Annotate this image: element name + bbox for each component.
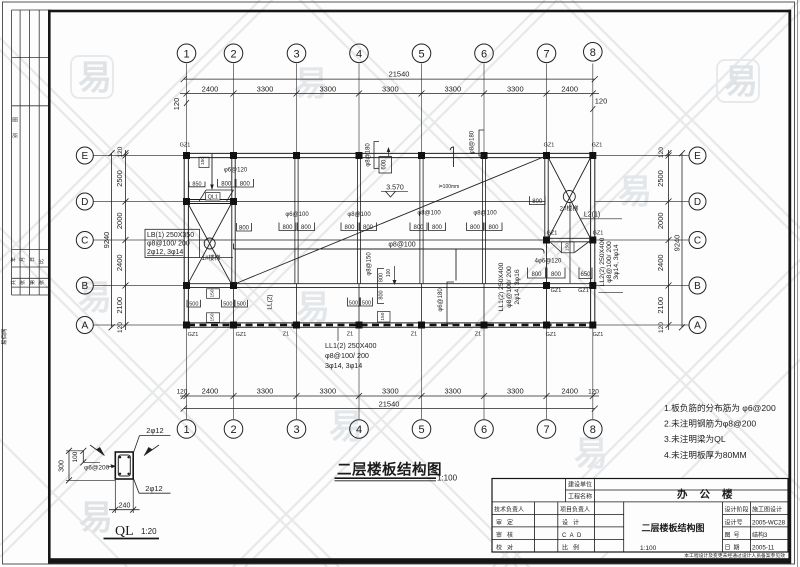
svg-text:3300: 3300 xyxy=(257,387,274,396)
binding strip tiny rotated labels xyxy=(10,117,45,285)
svg-text:QL1: QL1 xyxy=(208,195,218,201)
svg-text:φ8@150: φ8@150 xyxy=(367,252,373,276)
svg-text:2100: 2100 xyxy=(656,297,665,314)
800 bracket left of axis 7 xyxy=(530,196,546,204)
svg-text:GZ1: GZ1 xyxy=(180,143,191,149)
svg-text:第: 第 xyxy=(29,280,36,285)
svg-text:张: 张 xyxy=(38,280,45,285)
beam axis 5 double line xyxy=(420,153,423,323)
svg-text:设计: 设计 xyxy=(562,518,584,526)
axis C line xyxy=(188,239,544,241)
svg-text:φ8@100/ 200: φ8@100/ 200 xyxy=(147,241,190,248)
QL section outer rect xyxy=(115,452,133,479)
svg-text:5: 5 xyxy=(418,48,424,60)
svg-text:3300: 3300 xyxy=(444,85,461,94)
svg-text:图: 图 xyxy=(13,117,19,122)
svg-text:2000: 2000 xyxy=(656,212,665,229)
svg-text:2#楼梯: 2#楼梯 xyxy=(560,205,579,213)
svg-text:GZ1: GZ1 xyxy=(592,143,603,149)
beam axis 8 (right) double line xyxy=(591,153,595,327)
svg-text:7: 7 xyxy=(543,48,549,60)
svg-text:φ8@100: φ8@100 xyxy=(473,211,497,217)
top axis extension lines xyxy=(187,64,593,154)
svg-text:7: 7 xyxy=(543,424,549,436)
svg-text:日: 日 xyxy=(30,257,36,262)
top segment dim texts xyxy=(202,85,578,94)
svg-text:φ8@180: φ8@180 xyxy=(366,143,372,167)
svg-text:500: 500 xyxy=(223,302,232,308)
svg-text:800: 800 xyxy=(531,272,542,278)
beam axis C 7-8 (stair2) double xyxy=(545,238,595,242)
svg-text:8: 8 xyxy=(590,47,596,59)
svg-text:φ8@100/ 200: φ8@100/ 200 xyxy=(506,266,513,308)
left segment dim line xyxy=(123,150,129,330)
500 bracket left xyxy=(187,300,201,307)
150 box below near axis4 xyxy=(378,312,391,323)
svg-text:2400: 2400 xyxy=(202,85,219,94)
LL2(2) rotated text block right of axis 8 xyxy=(599,237,620,286)
column labels C row stair2 xyxy=(547,231,604,237)
svg-text:120: 120 xyxy=(177,389,188,396)
svg-text:LL2(2) 250X400: LL2(2) 250X400 xyxy=(599,237,606,286)
svg-text:1:100: 1:100 xyxy=(437,474,458,483)
beam axis E (top) double line xyxy=(184,153,595,157)
svg-text:B: B xyxy=(694,281,701,292)
svg-text:2500: 2500 xyxy=(115,170,124,187)
svg-text:C: C xyxy=(694,236,701,247)
svg-text:9240: 9240 xyxy=(102,232,111,249)
svg-text:易佰网: 易佰网 xyxy=(0,328,8,345)
svg-text:2φ12: 2φ12 xyxy=(145,484,162,493)
svg-text:二层楼板结构图: 二层楼板结构图 xyxy=(337,461,442,479)
right overall dim line 9240 xyxy=(679,150,685,330)
beam axis 7 double line E-C xyxy=(545,153,548,323)
svg-text:GZ1: GZ1 xyxy=(593,332,604,338)
columns C row (stair2) xyxy=(543,237,596,244)
svg-text:800: 800 xyxy=(488,225,499,231)
svg-text:易: 易 xyxy=(724,63,758,101)
right segment dim line xyxy=(666,150,672,330)
svg-text:2: 2 xyxy=(230,48,236,60)
svg-text:3300: 3300 xyxy=(507,85,524,94)
beam axis 6 double line xyxy=(482,153,485,323)
svg-text:LL1(2) 250X400: LL1(2) 250X400 xyxy=(325,341,377,350)
svg-text:120: 120 xyxy=(117,322,124,333)
svg-text:120: 120 xyxy=(595,97,608,106)
svg-text:1:100: 1:100 xyxy=(640,545,657,552)
outer right thin line xyxy=(797,0,799,567)
svg-text:工程名称: 工程名称 xyxy=(568,493,592,501)
svg-text:3300: 3300 xyxy=(507,387,524,396)
svg-text:21540: 21540 xyxy=(389,70,410,79)
svg-text:易: 易 xyxy=(574,435,608,473)
svg-text:2005-11: 2005-11 xyxy=(752,544,775,551)
long diagonal leader line 2B to 7E xyxy=(234,156,547,285)
svg-text:6: 6 xyxy=(481,48,487,60)
svg-text:4φ6@120: 4φ6@120 xyxy=(535,259,562,265)
top bubbles 1-8 xyxy=(177,43,602,63)
svg-text:比: 比 xyxy=(38,259,45,264)
svg-text:D: D xyxy=(81,197,88,208)
svg-text:150: 150 xyxy=(380,312,386,320)
svg-text:1: 1 xyxy=(183,48,189,60)
svg-text:4: 4 xyxy=(356,48,362,60)
svg-text:800: 800 xyxy=(551,272,562,278)
stair2 X cross xyxy=(549,158,591,238)
svg-text:本工程设计及变更未经通过设计人员备案参见效: 本工程设计及变更未经通过设计人员备案参见效 xyxy=(684,552,785,559)
vertical bar phi8@180 below B axis5 xyxy=(447,282,454,324)
svg-text:GZ1: GZ1 xyxy=(593,231,604,237)
svg-text:3.未注明梁为QL: 3.未注明梁为QL xyxy=(664,433,726,444)
svg-text:800: 800 xyxy=(413,225,424,231)
svg-text:500: 500 xyxy=(189,302,198,308)
table verticals xyxy=(535,479,751,553)
svg-text:φ8@100: φ8@100 xyxy=(388,242,415,249)
svg-text:图号: 图号 xyxy=(725,532,743,539)
svg-text:设计号: 设计号 xyxy=(725,518,743,526)
top overall dim line 21540 xyxy=(181,76,598,82)
150 hook symbol top xyxy=(199,157,209,167)
watermark glyphs xyxy=(78,59,758,541)
svg-text:150: 150 xyxy=(210,289,216,297)
svg-text:850: 850 xyxy=(192,181,201,187)
columns D row xyxy=(183,198,237,205)
column labels B row xyxy=(551,288,589,294)
svg-text:120: 120 xyxy=(658,147,665,158)
svg-text:Z1: Z1 xyxy=(347,331,353,337)
svg-text:3.570: 3.570 xyxy=(386,185,404,192)
svg-text:Z1: Z1 xyxy=(283,331,289,337)
svg-text:φ6@100: φ6@100 xyxy=(285,212,309,218)
right bubbles A-E xyxy=(689,147,706,334)
svg-text:150: 150 xyxy=(565,243,571,251)
svg-text:2.未注明钢筋为φ8@200: 2.未注明钢筋为φ8@200 xyxy=(664,418,756,429)
svg-text:E: E xyxy=(81,151,88,162)
svg-text:φ6@200: φ6@200 xyxy=(84,465,110,472)
columns A row xyxy=(183,322,596,329)
svg-text:4.未注明板厚为80MM: 4.未注明板厚为80MM xyxy=(664,449,747,460)
columns E row xyxy=(183,152,596,159)
svg-text:21540: 21540 xyxy=(379,399,400,408)
svg-text:建设单位: 建设单位 xyxy=(568,481,592,489)
svg-text:5: 5 xyxy=(418,424,424,436)
svg-text:500: 500 xyxy=(349,301,358,307)
svg-text:φ6@180: φ6@180 xyxy=(438,288,444,312)
svg-text:GZ1: GZ1 xyxy=(236,332,247,338)
beam axis 2 double line E-B xyxy=(232,153,235,287)
svg-text:2400: 2400 xyxy=(115,254,124,271)
svg-text:φ8@100/ 200: φ8@100/ 200 xyxy=(606,241,613,283)
svg-text:8: 8 xyxy=(590,424,596,436)
columns B row xyxy=(183,282,596,289)
svg-text:800: 800 xyxy=(239,226,250,232)
column labels A row below xyxy=(188,331,604,338)
LL1(2) rotated text block between 6-7 xyxy=(498,262,521,311)
svg-text:500: 500 xyxy=(362,301,371,307)
svg-text:φ6@120: φ6@120 xyxy=(224,168,248,174)
svg-text:4: 4 xyxy=(356,424,362,436)
beam axis B double line full width xyxy=(184,284,595,288)
hooked bar on E beam near x453 xyxy=(451,147,454,167)
left overall dim line 9240 xyxy=(109,150,115,330)
svg-text:300: 300 xyxy=(59,460,66,472)
bottom overall dim line 21540 xyxy=(181,406,598,412)
stair1 upper landing lines E-D xyxy=(199,190,234,201)
bottom bubbles 1-8 xyxy=(177,420,602,439)
svg-text:GZ1: GZ1 xyxy=(544,143,555,149)
QL1 box label xyxy=(206,193,221,200)
svg-text:Z1: Z1 xyxy=(411,331,417,337)
QL 300 dim xyxy=(68,451,70,481)
vertical bar phi8@180 top near axis4 xyxy=(374,142,379,169)
svg-text:3φ14, 3φ14: 3φ14, 3φ14 xyxy=(613,244,620,279)
svg-text:2005-WC28: 2005-WC28 xyxy=(752,519,786,526)
svg-text:GZ1: GZ1 xyxy=(546,332,557,338)
svg-text:800: 800 xyxy=(379,273,385,282)
svg-text:600: 600 xyxy=(382,159,388,170)
svg-text:易: 易 xyxy=(296,289,330,327)
svg-text:2: 2 xyxy=(230,424,236,436)
svg-text:3300: 3300 xyxy=(444,387,461,396)
svg-text:张: 张 xyxy=(19,280,26,285)
QL corner bars xyxy=(119,456,130,475)
stair2 150 box xyxy=(562,242,575,253)
stair1 lower symbols B-A xyxy=(207,289,220,299)
svg-text:800: 800 xyxy=(240,182,251,188)
bottom axis extension lines xyxy=(187,327,593,419)
QL 240 dim xyxy=(114,479,116,513)
stair1 flight line with arrow xyxy=(211,154,213,189)
svg-text:1.板负筋的分布筋为 φ6@200: 1.板负筋的分布筋为 φ6@200 xyxy=(664,402,776,413)
svg-text:φ8@180: φ8@180 xyxy=(470,130,476,154)
svg-text:2400: 2400 xyxy=(561,387,578,396)
title block texts top section xyxy=(568,481,592,501)
svg-text:LL1(2) 250X400: LL1(2) 250X400 xyxy=(498,262,505,311)
svg-text:800: 800 xyxy=(432,225,443,231)
svg-text:800: 800 xyxy=(344,225,355,231)
left axis extension lines xyxy=(93,156,183,326)
QL 100 dim xyxy=(82,451,84,463)
svg-text:3300: 3300 xyxy=(319,85,336,94)
svg-text:B: B xyxy=(81,281,88,292)
svg-text:审核: 审核 xyxy=(496,531,518,539)
svg-text:项目负责人: 项目负责人 xyxy=(560,506,590,514)
svg-text:GZ1: GZ1 xyxy=(551,288,562,294)
svg-text:共: 共 xyxy=(10,280,17,285)
svg-text:施工图设计: 施工图设计 xyxy=(752,506,782,514)
svg-text:校对: 校对 xyxy=(496,543,518,551)
QL arrows to section top xyxy=(96,447,105,456)
svg-text:年: 年 xyxy=(10,257,17,262)
850 bracket bar xyxy=(189,182,205,187)
svg-text:2400: 2400 xyxy=(561,85,578,94)
column labels top xyxy=(180,143,603,149)
svg-text:3300: 3300 xyxy=(257,85,274,94)
svg-text:9240: 9240 xyxy=(672,235,681,252)
svg-text:LL(2): LL(2) xyxy=(267,294,274,309)
svg-text:120: 120 xyxy=(172,98,181,111)
svg-text:3φ14, 3φ14: 3φ14, 3φ14 xyxy=(325,361,362,370)
svg-text:800: 800 xyxy=(282,225,293,231)
svg-text:i=100mm: i=100mm xyxy=(439,184,460,190)
svg-text:650: 650 xyxy=(580,272,591,278)
leader for LL1 block xyxy=(337,328,339,341)
500 500 brackets right xyxy=(222,300,235,307)
LL1 text block below plan xyxy=(325,341,377,370)
svg-text:φ8@100: φ8@100 xyxy=(417,211,441,217)
axis D line xyxy=(188,201,544,203)
beam axis 4 double line xyxy=(357,153,360,323)
svg-text:800: 800 xyxy=(379,290,385,299)
right segment dim texts xyxy=(656,147,665,333)
svg-text:1:20: 1:20 xyxy=(141,527,157,536)
QL stirrup xyxy=(118,455,130,476)
svg-text:800: 800 xyxy=(532,199,543,205)
stair2 circle xyxy=(563,191,575,203)
svg-text:500: 500 xyxy=(237,302,246,308)
svg-text:C: C xyxy=(81,236,88,247)
beam axis 3 double line xyxy=(295,153,298,323)
svg-text:150: 150 xyxy=(210,313,216,321)
svg-text:100: 100 xyxy=(72,451,79,462)
svg-text:2φ14, 3φ16: 2φ14, 3φ16 xyxy=(514,269,521,304)
svg-text:800: 800 xyxy=(470,225,481,231)
svg-text:6: 6 xyxy=(481,424,487,436)
svg-text:3: 3 xyxy=(293,48,299,60)
svg-text:GZ1: GZ1 xyxy=(578,288,589,294)
svg-text:120: 120 xyxy=(658,322,665,333)
bottom segment dim texts xyxy=(177,387,600,396)
svg-text:Z1: Z1 xyxy=(475,331,481,337)
svg-text:技术负责人: 技术负责人 xyxy=(494,506,524,514)
svg-text:150: 150 xyxy=(200,157,206,165)
svg-text:LB(1) 250X350: LB(1) 250X350 xyxy=(147,232,194,239)
binding strip table horizontals xyxy=(12,10,49,295)
phi8@100 annotation line at C-B xyxy=(234,248,542,250)
svg-text:3300: 3300 xyxy=(319,387,336,396)
svg-text:C A D: C A D xyxy=(562,533,582,539)
svg-text:A: A xyxy=(81,321,88,332)
svg-text:别: 别 xyxy=(12,133,19,138)
top segment dim line xyxy=(180,91,599,97)
svg-text:1: 1 xyxy=(183,424,189,436)
svg-text:易: 易 xyxy=(78,59,112,97)
beam axis A dashed centerline xyxy=(188,324,591,326)
svg-text:QL: QL xyxy=(115,524,134,539)
table horizontals xyxy=(492,490,788,539)
table outer frame xyxy=(492,479,788,553)
svg-text:2400: 2400 xyxy=(202,387,219,396)
svg-text:3: 3 xyxy=(293,424,299,436)
svg-text:易: 易 xyxy=(79,499,113,537)
svg-text:2500: 2500 xyxy=(656,170,665,187)
beam axis 1 (left) double line xyxy=(184,153,188,327)
right axis extension lines xyxy=(595,156,689,326)
left bubbles A-E xyxy=(76,147,93,334)
boxed 600 rotated label below E between 4-5 xyxy=(379,157,392,174)
stair1 X cross xyxy=(188,204,231,284)
svg-text:2100: 2100 xyxy=(115,297,124,314)
svg-text:二层楼板结构图: 二层楼板结构图 xyxy=(641,522,704,533)
beam axis D 1-2 double (QL1) xyxy=(186,200,234,204)
svg-text:A: A xyxy=(694,321,701,332)
beam axis A (bottom) double line xyxy=(184,323,595,327)
right section labels and values xyxy=(725,506,786,552)
500 500 cluster near axis4 on B xyxy=(348,298,360,307)
stair2 lower V lines below C xyxy=(549,241,590,253)
svg-text:800: 800 xyxy=(221,182,232,188)
svg-text:易: 易 xyxy=(618,173,652,211)
binding strip table verticals xyxy=(12,10,40,295)
svg-text:结构3: 结构3 xyxy=(752,531,768,539)
svg-text:审定: 审定 xyxy=(496,518,518,526)
svg-text:比例: 比例 xyxy=(562,543,584,551)
left section labels xyxy=(494,506,590,552)
svg-text:L2(1): L2(1) xyxy=(584,212,600,219)
LB(1) box label xyxy=(145,229,200,257)
svg-text:办公楼: 办公楼 xyxy=(677,488,745,501)
svg-text:120: 120 xyxy=(588,389,599,396)
svg-text:800: 800 xyxy=(301,225,312,231)
svg-text:设计阶段: 设计阶段 xyxy=(725,506,749,514)
small tick at axis1 line y103 xyxy=(184,100,189,106)
svg-text:2000: 2000 xyxy=(115,212,124,229)
bottom segment dim line xyxy=(180,393,599,399)
svg-text:2φ12, 3φ14: 2φ12, 3φ14 xyxy=(147,249,183,256)
stair1 circle xyxy=(204,238,215,249)
svg-text:100: 100 xyxy=(386,269,392,278)
svg-text:日期: 日期 xyxy=(725,543,743,551)
svg-text:240: 240 xyxy=(119,503,131,510)
svg-text:120: 120 xyxy=(117,146,124,157)
left segment dim texts xyxy=(115,146,124,333)
watermark box around top-right glyph xyxy=(717,60,759,102)
svg-text:GZ1: GZ1 xyxy=(188,332,199,338)
axis 2 line B-A xyxy=(233,287,235,323)
stair2 flight centerline xyxy=(569,203,571,284)
svg-text:φ8@100: φ8@100 xyxy=(347,212,371,218)
svg-text:3300: 3300 xyxy=(382,387,399,396)
svg-text:D: D xyxy=(694,197,701,208)
svg-text:1#楼梯: 1#楼梯 xyxy=(202,254,221,262)
svg-text:2400: 2400 xyxy=(656,254,665,271)
svg-text:月: 月 xyxy=(20,257,26,262)
single 800 bracket right of axis2 xyxy=(237,223,252,231)
svg-text:φ8@100/ 200: φ8@100/ 200 xyxy=(325,351,369,360)
svg-text:E: E xyxy=(694,151,701,162)
svg-text:2φ12: 2φ12 xyxy=(146,426,163,435)
650 bracket near axis 8 below C xyxy=(579,268,592,279)
vertical bar phi8@180 top near axis6 xyxy=(479,130,484,156)
svg-text:3300: 3300 xyxy=(382,85,399,94)
